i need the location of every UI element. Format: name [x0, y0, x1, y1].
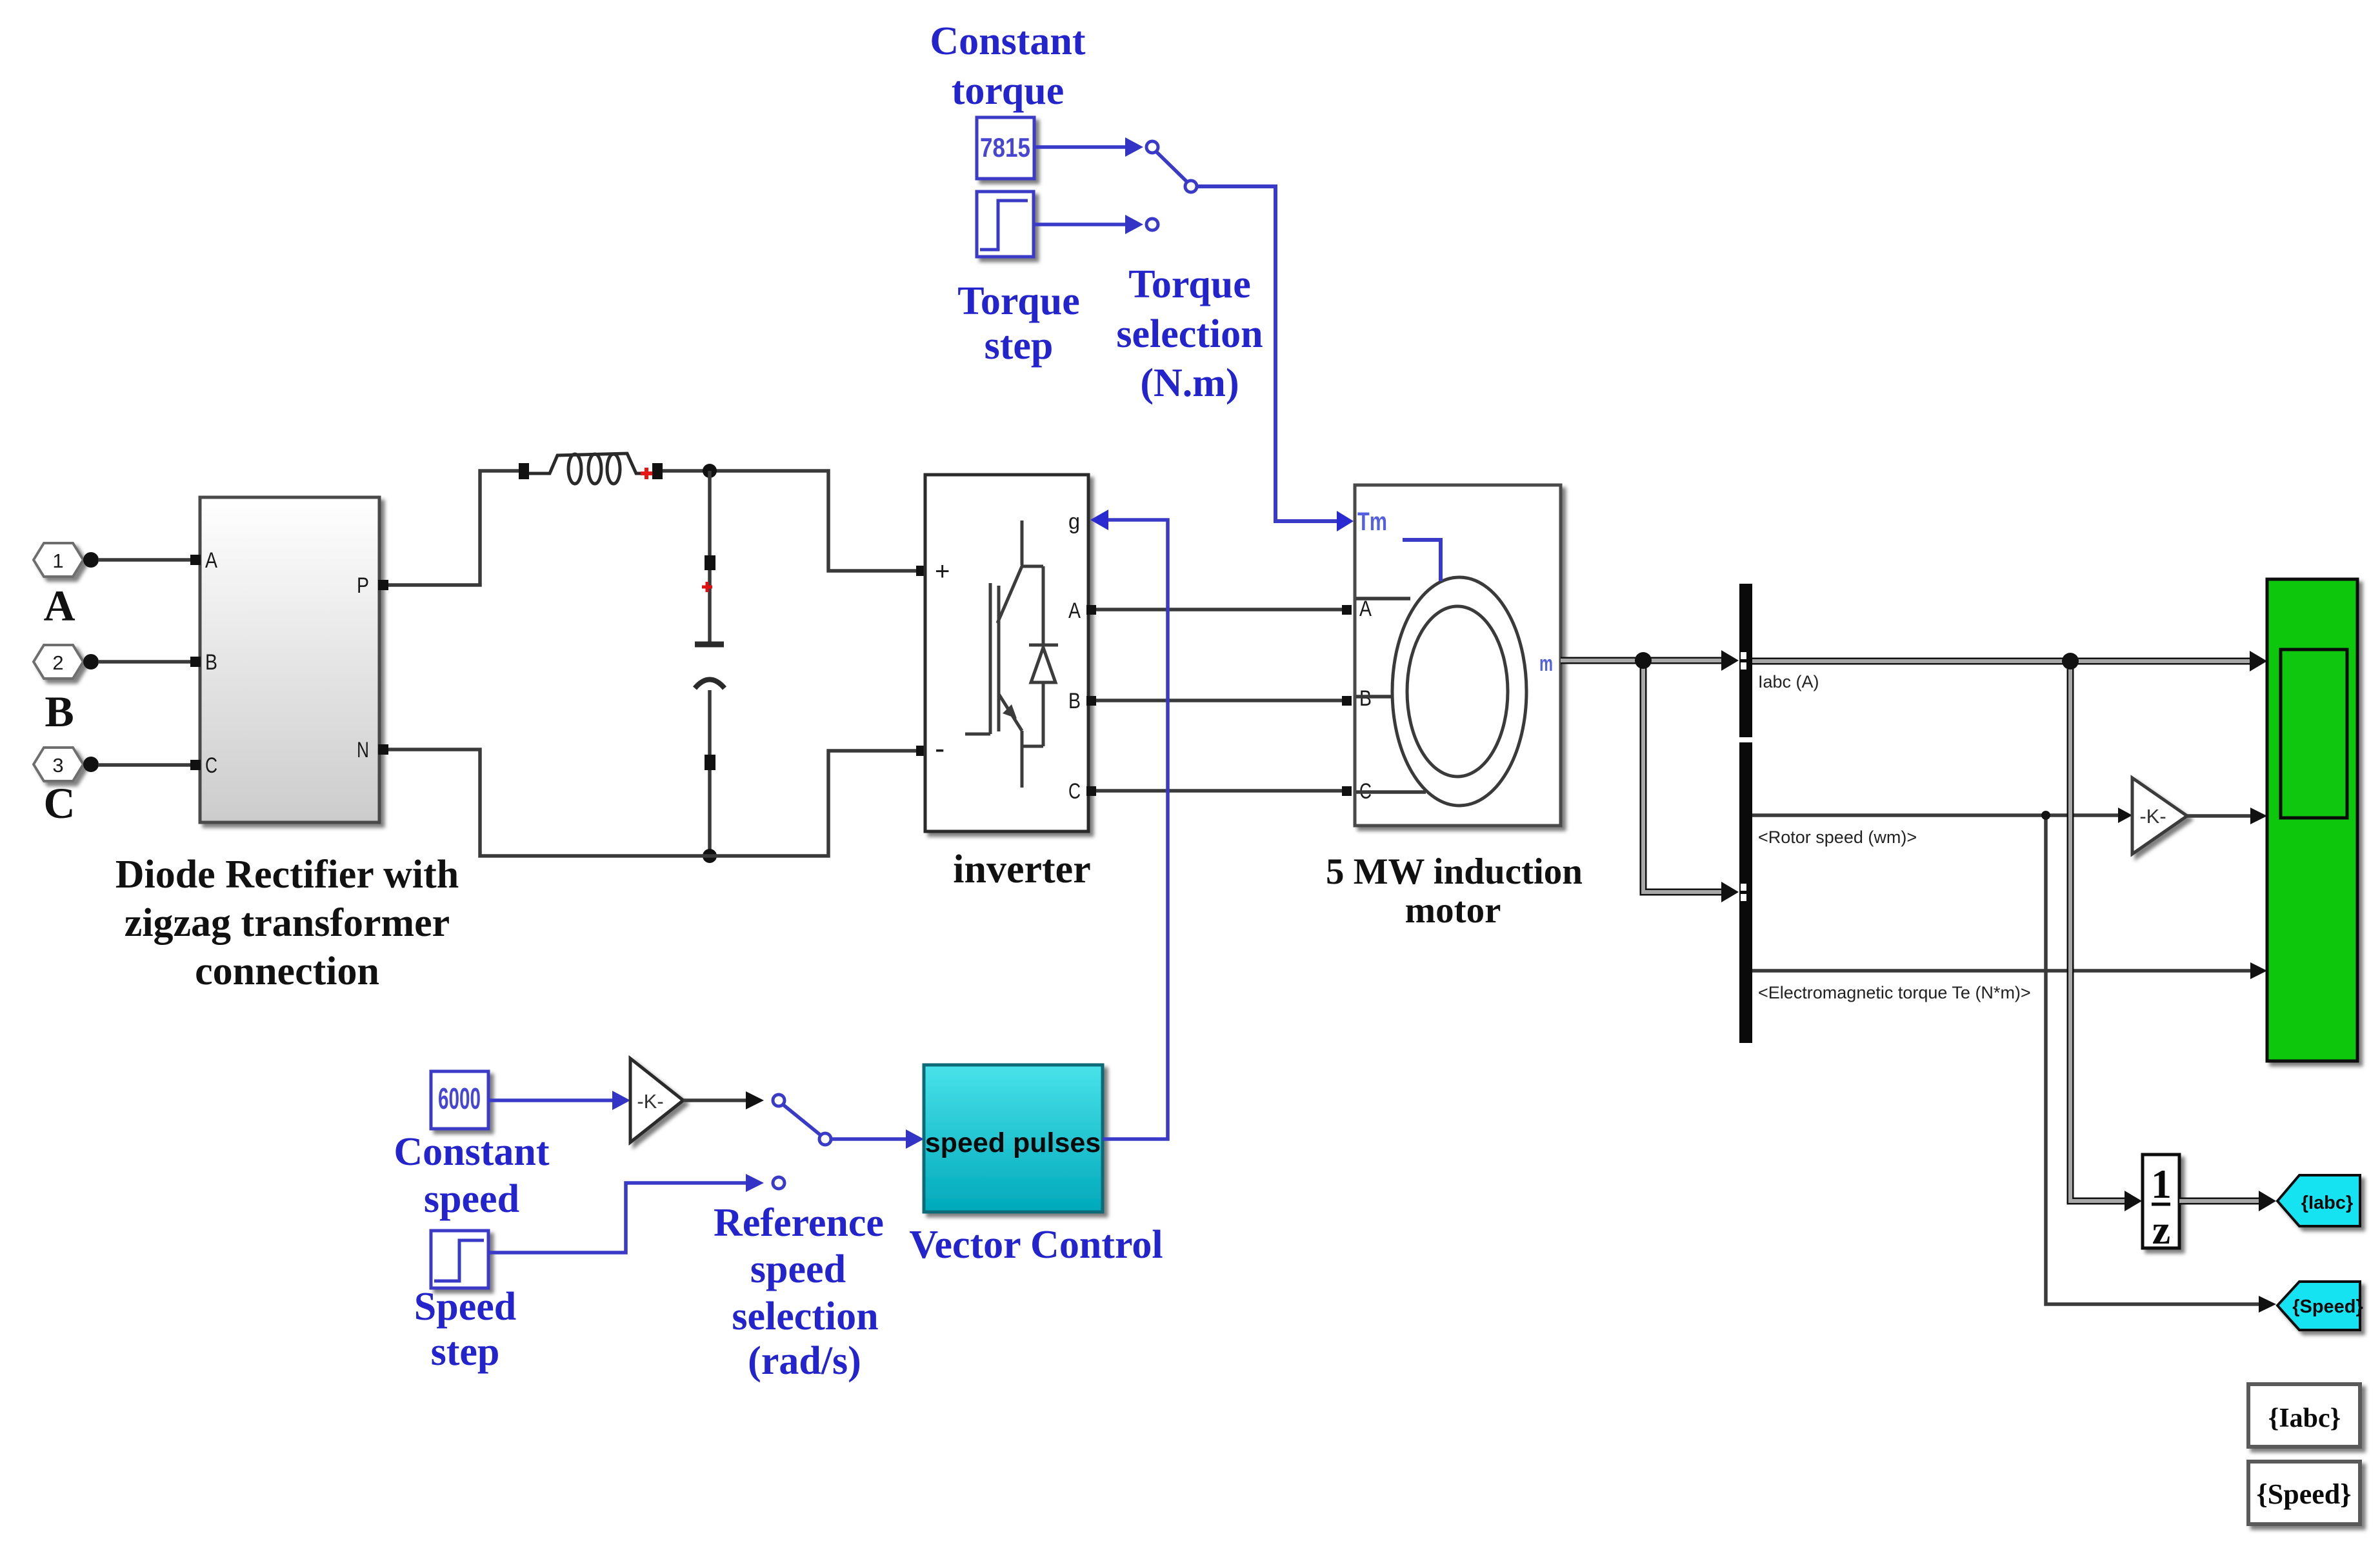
- svg-text:B: B: [1359, 686, 1372, 711]
- svg-text:B: B: [1068, 689, 1081, 713]
- from tag box Iabc: [2248, 1384, 2360, 1447]
- svg-text:z: z: [2152, 1207, 2170, 1253]
- svg-text:Constant: Constant: [930, 19, 1086, 63]
- plus mark capacitor: [702, 582, 712, 592]
- bus branch down: [1643, 660, 1721, 892]
- wire P to inductor: [388, 471, 519, 585]
- svg-text:{Speed}: {Speed}: [2256, 1478, 2351, 1510]
- pad rectifier N: [378, 744, 388, 755]
- svg-text:selection: selection: [1116, 312, 1263, 356]
- from tag box Speed: [2248, 1462, 2360, 1524]
- svg-text:step: step: [431, 1330, 500, 1374]
- svg-text:3: 3: [52, 754, 63, 777]
- svg-text:-K-: -K-: [637, 1090, 663, 1113]
- pad inverter plus: [916, 566, 926, 576]
- svg-text:2: 2: [52, 651, 63, 674]
- svg-text:Reference: Reference: [714, 1201, 884, 1245]
- pad inverter B out: [1086, 696, 1096, 706]
- svg-text:N: N: [357, 738, 369, 762]
- pad rectifier P: [378, 580, 388, 590]
- switch lever speed: [783, 1104, 821, 1135]
- wire gain to switch: [683, 1098, 747, 1102]
- IGBT icon: [965, 521, 1058, 788]
- port marks bar2: [1741, 884, 1746, 891]
- arrowhead: [612, 1091, 630, 1110]
- wire torque step to open circle: [1034, 223, 1128, 226]
- pad motor C in: [1342, 786, 1352, 796]
- wire speed step up to open circle: [488, 1183, 747, 1253]
- wire port3 to rectifier C: [98, 763, 194, 767]
- svg-text:1: 1: [2151, 1161, 2172, 1207]
- motor block: [1355, 485, 1561, 826]
- bus Iabc to scope: [1752, 658, 2253, 665]
- svg-text:m: m: [1539, 651, 1553, 676]
- wire inverter A to motor A: [1096, 608, 1345, 611]
- svg-text:A: A: [205, 548, 217, 573]
- pad inverter A out: [1086, 605, 1096, 615]
- wire Te to scope: [1752, 969, 2253, 973]
- motor icon ellipses: [1392, 577, 1526, 806]
- svg-text:5 MW induction: 5 MW induction: [1326, 851, 1583, 892]
- wire inverter B to motor B: [1096, 699, 1345, 702]
- thin vertical wire to Speed tag: [2046, 815, 2261, 1304]
- wire inverter C to motor C: [1096, 789, 1345, 793]
- pad rectifier A: [190, 555, 201, 565]
- pad inverter minus: [916, 746, 926, 756]
- svg-text:Speed: Speed: [414, 1285, 516, 1329]
- switch lever: [1156, 152, 1187, 182]
- node small dot: [2041, 811, 2050, 820]
- capacitor C: [695, 644, 725, 688]
- scope block: [2267, 579, 2357, 1061]
- arrowhead into gain: [2118, 808, 2132, 823]
- step block Speed step: [431, 1231, 488, 1288]
- pad inductor left: [519, 463, 529, 479]
- unit delay 1/z: [2143, 1155, 2179, 1253]
- pad motor B in: [1342, 696, 1352, 706]
- node bus junction: [1635, 652, 1652, 669]
- svg-text:A: A: [43, 581, 75, 630]
- arrowhead: [1125, 137, 1143, 157]
- bus selector bar 2: [1739, 742, 1752, 1043]
- arrowhead: [1125, 215, 1143, 234]
- switch output circle speed: [819, 1133, 831, 1145]
- svg-text:speed: speed: [424, 1177, 519, 1221]
- svg-text:B: B: [45, 687, 74, 736]
- pad motor A in: [1342, 605, 1352, 615]
- bus unit delay to Iabc tag: [2179, 1198, 2261, 1205]
- arrowhead black: [746, 1091, 764, 1109]
- switch output circle: [1185, 181, 1197, 192]
- motor stub A: [1356, 597, 1410, 600]
- arrowhead into scope 3: [2250, 962, 2267, 979]
- svg-text:C: C: [205, 753, 217, 778]
- wire capacitor bottom: [708, 690, 712, 856]
- bus arrowhead input2: [1721, 882, 1739, 902]
- wire 7815 to switch: [1034, 145, 1128, 149]
- constant block 7815: [977, 117, 1034, 179]
- vector control block: [924, 1065, 1103, 1212]
- arrowhead into scope 2: [2250, 808, 2267, 824]
- arrowhead into scope 1: [2250, 651, 2267, 671]
- wire vector control to inverter g: [1103, 520, 1168, 1139]
- svg-text:6000: 6000: [438, 1082, 481, 1115]
- svg-text:1: 1: [52, 550, 63, 572]
- svg-text:Tm: Tm: [1357, 508, 1387, 536]
- svg-text:Iabc (A): Iabc (A): [1758, 672, 1819, 691]
- svg-text:g: g: [1068, 510, 1080, 534]
- goto tag Iabc: [2277, 1175, 2360, 1226]
- pad rectifier B: [190, 657, 201, 667]
- arrowhead: [746, 1174, 764, 1192]
- node junction top: [703, 464, 717, 478]
- svg-text:<Electromagnetic torque Te (N*: <Electromagnetic torque Te (N*m)>: [1758, 983, 2031, 1002]
- svg-text:speed: speed: [750, 1247, 846, 1291]
- svg-text:<Rotor speed (wm)>: <Rotor speed (wm)>: [1758, 828, 1917, 847]
- svg-text:+: +: [935, 557, 950, 586]
- wire inductor to inverter plus: [663, 471, 916, 571]
- step block Torque step: [977, 192, 1034, 257]
- arrowhead into g: [1090, 510, 1108, 530]
- bus arrowhead input1: [1721, 650, 1739, 671]
- inport 1: [34, 543, 83, 577]
- svg-text:B: B: [205, 650, 217, 675]
- svg-text:P: P: [357, 573, 369, 598]
- plus mark inductor: [641, 468, 652, 479]
- svg-text:Vector Control: Vector Control: [909, 1223, 1163, 1267]
- arrowhead into unit delay: [2125, 1191, 2142, 1211]
- motor Tm blue mark: [1403, 540, 1441, 581]
- inverter block: [925, 475, 1088, 831]
- svg-text:step: step: [985, 324, 1054, 368]
- switch input circle 1: [1146, 141, 1158, 153]
- wire switch to vector control: [831, 1137, 908, 1141]
- svg-text:-K-: -K-: [2139, 805, 2166, 828]
- wire gain to scope: [2187, 814, 2253, 818]
- svg-text:{Iabc}: {Iabc}: [2268, 1404, 2341, 1433]
- svg-text:C: C: [1068, 779, 1081, 804]
- inport 2: [34, 645, 83, 679]
- inport 3: [34, 748, 83, 781]
- arrowhead into Tm: [1337, 511, 1354, 531]
- gain K1: [630, 1058, 683, 1142]
- inductor L: [529, 453, 641, 484]
- wire port1 to rectifier A: [98, 558, 194, 562]
- svg-text:selection: selection: [732, 1295, 878, 1338]
- motor stub C: [1356, 790, 1426, 794]
- speed switch circle 2: [773, 1177, 785, 1189]
- node dot port2: [83, 654, 99, 670]
- svg-text:speed pulses: speed pulses: [925, 1127, 1101, 1158]
- wire capacitor branch: [708, 471, 712, 644]
- svg-text:Torque: Torque: [957, 279, 1080, 323]
- svg-text:{Iabc}: {Iabc}: [2301, 1193, 2354, 1213]
- port marks bar1: [1741, 652, 1746, 659]
- wire torque selection to motor Tm: [1197, 186, 1337, 521]
- bus selector bar 1: [1739, 584, 1752, 737]
- node dot port3: [83, 757, 99, 772]
- diode rectifier block: [200, 497, 379, 822]
- gain K2: [2132, 778, 2187, 854]
- svg-text:Constant: Constant: [394, 1130, 550, 1174]
- svg-text:inverter: inverter: [953, 848, 1090, 891]
- svg-text:torque: torque: [952, 69, 1065, 113]
- constant block 6000: [431, 1071, 488, 1129]
- node bus junction 2: [2062, 653, 2079, 670]
- arrowhead into Speed tag: [2259, 1296, 2276, 1313]
- speed switch circle 1: [773, 1095, 785, 1106]
- node dot port1: [83, 552, 99, 568]
- arrowhead into speed pulses: [906, 1129, 924, 1149]
- svg-text:Diode Rectifier with: Diode Rectifier with: [115, 853, 459, 897]
- wire 6000 to gain: [488, 1098, 613, 1102]
- svg-text:Torque: Torque: [1128, 263, 1251, 306]
- goto tag Speed: [2277, 1282, 2363, 1330]
- pad capacitor bottom: [705, 755, 715, 770]
- svg-text:zigzag transformer: zigzag transformer: [125, 901, 450, 945]
- pad inductor right: [652, 463, 663, 479]
- svg-text:{Speed}: {Speed}: [2292, 1296, 2363, 1317]
- bus motor m to selector: [1561, 657, 1726, 664]
- pad inverter C out: [1086, 786, 1096, 796]
- node junction bottom: [703, 849, 717, 863]
- svg-text:motor: motor: [1405, 890, 1501, 931]
- wire port2 to rectifier B: [98, 660, 194, 664]
- svg-text:(N.m): (N.m): [1140, 361, 1239, 405]
- wire rotor speed: [1752, 813, 2121, 817]
- svg-text:C: C: [43, 779, 75, 828]
- svg-text:-: -: [935, 731, 945, 765]
- svg-text:(rad/s): (rad/s): [748, 1339, 861, 1383]
- arrowhead into Iabc tag: [2259, 1191, 2276, 1211]
- wire N to inverter minus: [388, 749, 916, 856]
- vertical bus down to unit delay: [2070, 661, 2125, 1201]
- pad capacitor top: [705, 555, 715, 570]
- svg-text:A: A: [1068, 599, 1081, 623]
- pad rectifier C: [190, 760, 201, 770]
- svg-text:7815: 7815: [980, 132, 1030, 163]
- switch input circle 2: [1146, 219, 1158, 230]
- motor stub B: [1356, 695, 1392, 699]
- svg-text:connection: connection: [195, 949, 379, 993]
